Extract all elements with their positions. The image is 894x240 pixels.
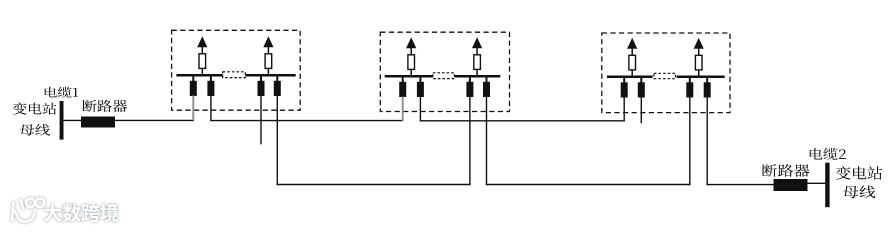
label 母线 (right) xyxy=(843,185,875,198)
label 断路器 (right) xyxy=(762,164,809,177)
bus section RMU3.2 xyxy=(677,75,725,78)
switch (cable termination) RMU1 T4 xyxy=(274,76,281,96)
wire: RMU1 T2 drop to upper feeder (outgoing) xyxy=(210,96,212,121)
switch (cable termination) RMU1 T3 xyxy=(258,76,265,96)
wire: RMU1 T1 drop to upper feeder (incoming) xyxy=(192,96,194,121)
wire: RMU2 T4 to RMU3 T3 (lower feeder segment 2) xyxy=(486,184,691,186)
wire: RMU2 T2 to RMU3 T1 (upper feeder segment 3) xyxy=(420,120,625,122)
bus section RMU1.2 xyxy=(245,74,295,77)
switch (cable termination) RMU2 T3 xyxy=(466,77,473,97)
fuse F2.1 xyxy=(408,55,415,70)
switch (cable termination) RMU3 T4 xyxy=(704,78,711,98)
wire: busbar B1 to breaker QF1 xyxy=(63,119,82,121)
label 变电站 (right) xyxy=(836,166,882,180)
switch (cable termination) RMU3 T1 xyxy=(621,78,628,98)
load arrow RMU2.1 (outgoing feeder to consumers) xyxy=(406,37,416,76)
bus coupler RMU1 (dashed link between bus sections) xyxy=(223,72,246,78)
wire: RMU1 T4 drop to lower feeder xyxy=(276,96,278,186)
switch (cable termination) RMU1 T1 xyxy=(190,76,197,96)
wire: RMU1 T3 spare stub (unconnected) xyxy=(260,96,262,145)
wire: RMU2 T4 drop to lower feeder (crosses upper feeder) xyxy=(486,97,488,186)
label 母线 (left) xyxy=(20,124,50,136)
ring main unit RMU1 enclosure (dashed) xyxy=(172,30,301,110)
bus coupler RMU3 (dashed link between bus sections) xyxy=(654,73,676,78)
switch (cable termination) RMU2 T1 xyxy=(399,77,406,97)
fuse F2.2 xyxy=(474,55,481,70)
fuse F1.2 xyxy=(265,54,272,69)
bus section RMU3.1 xyxy=(607,75,653,78)
circuit breaker QF1 (断路器) xyxy=(81,117,115,128)
wire: RMU2 T2 drop to upper feeder (outgoing) xyxy=(419,97,421,122)
load arrow RMU2.2 (outgoing feeder to consumers) xyxy=(472,37,482,76)
wire: QF1 to RMU1 terminal T1 (upper feeder segment 1) xyxy=(115,119,194,121)
load arrow RMU3.2 (outgoing feeder to consumers) xyxy=(694,38,704,77)
bus section RMU2.1 xyxy=(385,75,433,78)
watermark logo (K100 mark, white layer) xyxy=(12,199,44,222)
switch (cable termination) RMU3 T2 xyxy=(638,78,645,98)
wire: RMU1 T4 to RMU2 T3 (lower feeder segment 1) xyxy=(277,184,471,186)
switch (cable termination) RMU3 T3 xyxy=(686,78,693,98)
watermark text 大数跨境 (halo layer) xyxy=(44,203,118,222)
busbar B2 substation bus (变电站母线) xyxy=(825,163,829,208)
bus section RMU2.2 xyxy=(455,75,501,78)
load arrow RMU3.1 (outgoing feeder to consumers) xyxy=(627,38,637,77)
switch (cable termination) RMU1 T2 xyxy=(207,76,214,96)
wire: RMU3 T3 drop to lower feeder xyxy=(689,97,691,185)
label 断路器 (left) xyxy=(83,100,128,112)
label 电缆1 xyxy=(45,87,79,98)
load arrow RMU1.1 (outgoing feeder to consumers) xyxy=(197,36,207,75)
watermark logo (K100 mark, light halo layer) xyxy=(12,199,44,222)
fuse F3.1 xyxy=(629,55,636,70)
wire: RMU2 T1 drop to upper feeder (incoming) xyxy=(402,97,404,122)
wire: RMU3 T1 drop to upper feeder (incoming) xyxy=(623,97,625,121)
fuse F3.2 xyxy=(695,55,702,70)
circuit breaker QF2 (断路器) xyxy=(774,179,808,191)
wire: RMU3 T2 spare stub (unconnected) xyxy=(640,97,642,123)
fuse F1.1 xyxy=(199,54,206,69)
switch (cable termination) RMU2 T2 xyxy=(417,77,424,97)
bus coupler RMU2 (dashed link between bus sections) xyxy=(433,73,455,79)
label 电缆2 xyxy=(810,148,846,160)
ring main unit RMU3 enclosure (dashed) xyxy=(602,33,730,113)
busbar B1 substation bus (变电站母线) xyxy=(60,101,64,140)
wire: RMU3 T4 drop to lower feeder xyxy=(706,97,708,185)
load arrow RMU1.2 (outgoing feeder to consumers) xyxy=(263,36,273,75)
wire: RMU3 T4 to breaker QF2 (lower feeder segment 3) xyxy=(707,184,774,186)
switch (cable termination) RMU2 T4 xyxy=(483,77,490,97)
watermark text 大数跨境 (white layer) xyxy=(44,203,118,222)
ring main unit RMU2 enclosure (dashed) xyxy=(380,32,509,111)
label 变电站 (left) xyxy=(13,102,57,114)
bus section RMU1.1 xyxy=(176,74,224,77)
wire: QF2 to busbar B2 xyxy=(807,182,826,184)
wire: RMU2 T3 drop to lower feeder (crosses upper feeder) xyxy=(469,97,471,186)
wire: RMU1 T2 to RMU2 T1 (upper feeder segment 2) xyxy=(210,120,403,122)
